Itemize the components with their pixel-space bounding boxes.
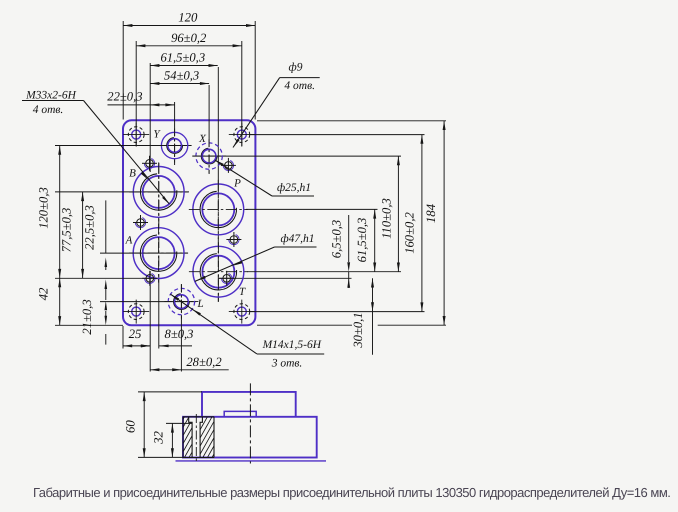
dimension 22,5±0,3 (left) — [105, 200, 107, 253]
svg-text:6,5±0,3: 6,5±0,3 — [330, 220, 344, 258]
dimension 28±0,2 (bottom) — [150, 369, 181, 371]
screw hole mid-left — [133, 215, 148, 230]
svg-text:8±0,3: 8±0,3 — [165, 327, 194, 341]
dimension 25 (bottom) — [123, 345, 150, 347]
svg-text:22,5±0,3: 22,5±0,3 — [83, 205, 97, 250]
hole T (M33 port) — [189, 242, 248, 301]
hole L (M14 port) — [164, 285, 198, 319]
svg-text:60: 60 — [124, 420, 138, 433]
wire: common left reference extension line for dims 22/54/61.5 — [149, 63, 151, 172]
dimension 77,5±0,3 (left) — [82, 192, 84, 278]
svg-text:A: A — [125, 235, 133, 247]
hole Y (M14 port) — [158, 129, 192, 163]
svg-text:4 отв.: 4 отв. — [33, 104, 64, 116]
mounting hole bottom-right — [229, 300, 255, 324]
svg-text:160±0,2: 160±0,2 — [403, 212, 417, 254]
dimension 21±0,3 (left bottom) — [105, 301, 108, 311]
svg-text:ф25,h1: ф25,h1 — [277, 182, 311, 194]
mounting hole top-right — [229, 123, 255, 147]
wire: plate bottom row extension to dim 184 (two segments) — [257, 324, 352, 326]
screw hole bottom-left — [142, 271, 157, 286]
node: P/T column centerline — [217, 182, 219, 302]
dimension 32 (side view) — [166, 422, 192, 424]
wire: top mounting hole row extension to dim 160 — [250, 134, 425, 136]
svg-text:32: 32 — [152, 431, 166, 445]
dimension 61,5±0,3 (top) — [150, 65, 218, 67]
dimension 22±0,3 — [108, 104, 151, 106]
hole B (M33 port) — [129, 162, 188, 221]
wire: extension line of dim 96 left (through mounting hole) — [135, 41, 137, 146]
dimension 8±0,3 (bottom) — [141, 345, 150, 347]
svg-text:L: L — [196, 298, 203, 310]
svg-text:96±0,2: 96±0,2 — [171, 31, 207, 45]
svg-text:X: X — [198, 133, 207, 145]
screw hole top-left — [142, 156, 157, 171]
svg-text:28±0,2: 28±0,2 — [186, 355, 222, 369]
hole X (M14 port) — [192, 139, 226, 173]
dimension 42 (left) — [59, 278, 61, 325]
svg-text:М14х1,5-6Н: М14х1,5-6Н — [262, 339, 322, 351]
wire: cross hole column extension down to bottom dims — [149, 271, 151, 372]
dimension 30±0,1 (bottom right) — [372, 278, 374, 311]
svg-text:184: 184 — [424, 203, 438, 223]
svg-text:ф47,h1: ф47,h1 — [280, 233, 314, 245]
svg-text:T: T — [239, 286, 246, 298]
side view: plate body — [183, 417, 317, 458]
side view: main centerline — [249, 383, 251, 463]
screw hole mid-right — [226, 232, 241, 247]
dimension 160±0,2 (right) — [421, 135, 423, 312]
dimension 61,5±0,3 (right) — [374, 209, 376, 271]
svg-text:B: B — [129, 168, 136, 180]
wire: X hole row line to right dim 110 — [193, 155, 401, 157]
wire: B hole row line to left dims — [55, 191, 189, 193]
screw hole top-right — [221, 158, 236, 173]
wire: P hole row line to right dim 61.5 — [246, 208, 378, 210]
screw hole bottom-right — [219, 271, 234, 286]
mounting hole bottom-left — [123, 300, 149, 324]
wire: bottom screw hole row line (right part) — [218, 277, 352, 279]
hole P (M33 port) — [189, 180, 248, 239]
wire: left extension line of dim 120 (top) — [122, 21, 124, 120]
side view: sectioned stud area with hatching — [119, 414, 278, 460]
svg-text:21±0,3: 21±0,3 — [80, 299, 94, 334]
wire: B/A column extension down to bottom dims — [158, 285, 160, 349]
svg-text:25: 25 — [129, 327, 142, 341]
dimension 110±0,3 (right) — [397, 156, 399, 272]
side view: base surface line — [176, 460, 327, 462]
node: X hole vertical centerline — [208, 139, 210, 174]
svg-text:22±0,3: 22±0,3 — [107, 90, 142, 104]
wire: extension line of dim 96 right (through mounting hole) — [241, 41, 243, 146]
svg-text:М33х2-6Н: М33х2-6Н — [25, 89, 77, 101]
plate outline (main view) — [123, 120, 255, 325]
svg-text:42: 42 — [37, 287, 51, 300]
svg-text:110±0,3: 110±0,3 — [380, 198, 394, 239]
wire: A hole row line — [100, 252, 188, 254]
svg-text:61,5±0,3: 61,5±0,3 — [355, 218, 369, 263]
node: B/A column centerline — [158, 163, 160, 285]
side view: stud centerline — [195, 414, 197, 461]
wire: extension line from dim 54 down to hole X — [208, 85, 210, 139]
svg-text:30±0,1: 30±0,1 — [351, 312, 365, 348]
side view: locating boss on plate top — [224, 411, 256, 416]
wire: L column extension down to dim 28 — [180, 319, 182, 372]
hole A (M33 port) — [129, 224, 188, 283]
wire: extension line from dim 61.5 down to hole P — [217, 67, 219, 182]
svg-text:120: 120 — [178, 11, 198, 25]
svg-text:ф9: ф9 — [289, 62, 303, 74]
dimension 60 (side view) — [138, 391, 202, 393]
wire: plate top row extension to dim 184 — [257, 120, 446, 122]
wire: plate bottom row extension to the left (dims 42/21) — [55, 324, 123, 326]
svg-text:3 отв.: 3 отв. — [271, 358, 303, 370]
wire: plate left edge extension down to dim 25 — [122, 326, 124, 349]
svg-text:54±0,3: 54±0,3 — [164, 69, 199, 83]
dimension 184 (right, overall height) — [443, 121, 445, 325]
wire: extension from dim 22 down to hole Y — [174, 102, 176, 128]
svg-text:4 отв.: 4 отв. — [284, 80, 315, 92]
wire: bottom screw hole row line (left part) — [55, 277, 152, 279]
svg-text:Габаритные и присоединительные: Габаритные и присоединительные размеры п… — [33, 485, 670, 500]
svg-text:61,5±0,3: 61,5±0,3 — [160, 51, 205, 65]
side view: valve body outline — [202, 392, 296, 417]
wire: Y hole row line to left dim 120 — [55, 145, 191, 147]
mounting hole top-left — [123, 123, 149, 147]
node: L hole vertical centerline — [180, 284, 182, 319]
wire: right extension line of dim 120 (top) — [254, 21, 256, 120]
dimension 6,5±0,3 (right) — [348, 215, 350, 262]
dimension 120 (overall width) — [123, 25, 255, 27]
svg-text:120±0,3: 120±0,3 — [37, 187, 51, 229]
svg-text:P: P — [233, 178, 241, 190]
dimension 54±0,3 — [150, 83, 209, 85]
dimension 96±0,2 — [136, 45, 242, 47]
node: Y hole vertical centerline — [174, 128, 176, 165]
dimension 120±0,3 (left) — [59, 146, 61, 279]
wire: bottom mounting hole row extension to dim 160 — [250, 311, 425, 313]
wire: T hole row line to right dims — [247, 271, 401, 273]
wire: L hole row line — [100, 301, 196, 303]
svg-text:77,5±0,3: 77,5±0,3 — [60, 208, 74, 253]
